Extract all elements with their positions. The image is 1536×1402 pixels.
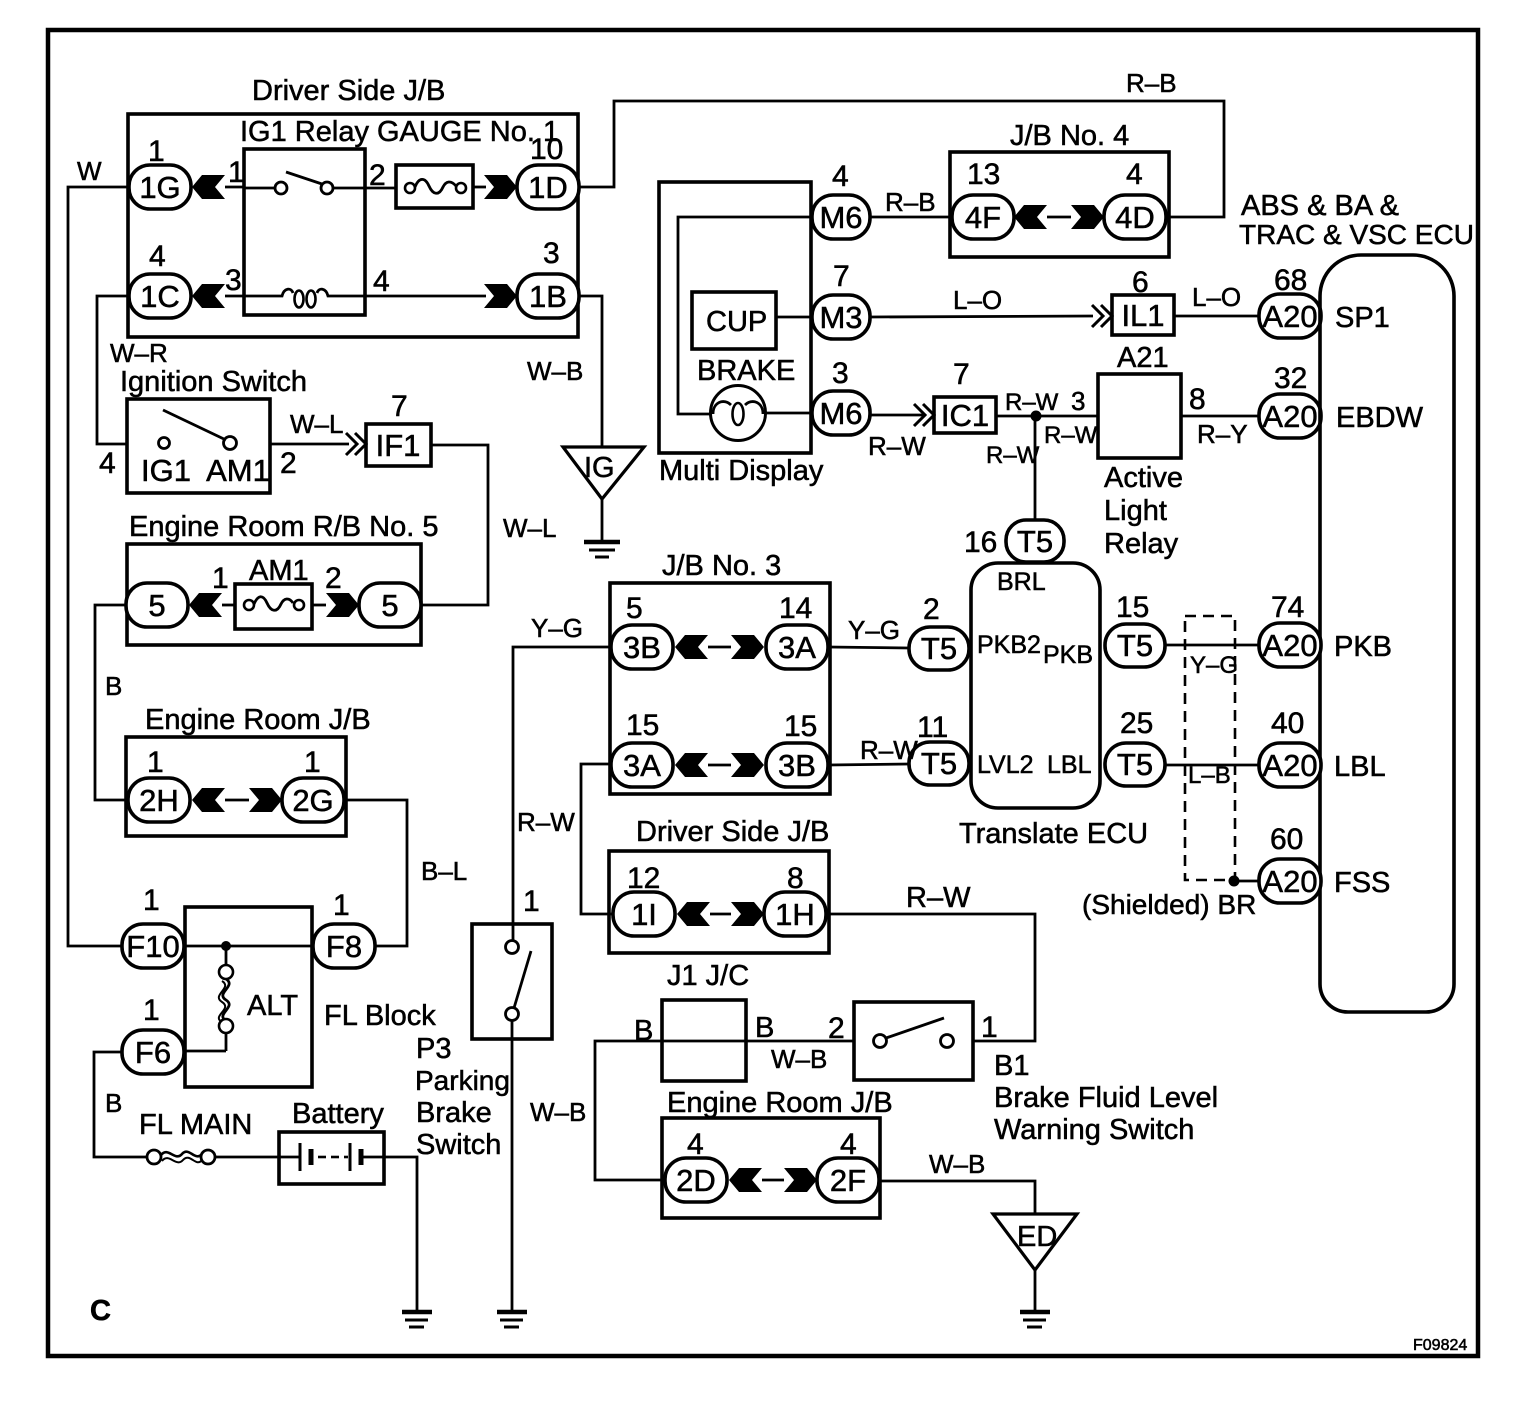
svg-text:74: 74	[1271, 591, 1304, 624]
svg-text:15: 15	[1116, 591, 1149, 624]
svg-text:Engine Room R/B No. 5: Engine Room R/B No. 5	[129, 511, 438, 543]
svg-text:LVL2: LVL2	[977, 751, 1034, 779]
svg-text:4: 4	[687, 1128, 704, 1161]
svg-text:7: 7	[391, 390, 408, 423]
svg-text:A20: A20	[1262, 299, 1317, 334]
node junction on F10-F8 wire	[221, 941, 231, 951]
arrows between 2H and 2G	[192, 788, 225, 812]
wire W : 1G left down to F10	[68, 187, 129, 946]
svg-text:4: 4	[832, 160, 849, 193]
svg-text:AM1: AM1	[206, 453, 270, 488]
svg-text:F09824: F09824	[1413, 1337, 1467, 1354]
svg-text:W–B: W–B	[771, 1044, 827, 1074]
svg-text:M6: M6	[819, 200, 862, 235]
svg-text:4: 4	[1126, 158, 1143, 191]
svg-text:T5: T5	[1017, 524, 1053, 559]
svg-text:3B: 3B	[623, 630, 661, 665]
svg-text:Active: Active	[1104, 462, 1183, 494]
svg-text:3B: 3B	[778, 748, 816, 783]
svg-text:60: 60	[1270, 823, 1303, 856]
svg-text:8: 8	[787, 862, 804, 895]
svg-text:R–W: R–W	[1005, 389, 1059, 416]
wire W-L : IF1 down to R/B No.5	[421, 445, 488, 605]
svg-text:ED: ED	[1017, 1221, 1057, 1253]
svg-text:2F: 2F	[830, 1163, 866, 1198]
svg-text:2H: 2H	[139, 783, 179, 818]
arrows between 3B and 3A	[675, 635, 708, 659]
wire : T5 15 to A20 74	[1165, 644, 1259, 647]
svg-text:FSS: FSS	[1334, 867, 1390, 899]
svg-text:PKB: PKB	[1043, 641, 1093, 669]
svg-text:B1: B1	[994, 1050, 1029, 1082]
svg-text:W–L: W–L	[503, 513, 556, 543]
svg-text:Y–G: Y–G	[1190, 652, 1238, 679]
svg-text:F6: F6	[135, 1035, 171, 1070]
svg-text:B–L: B–L	[421, 856, 467, 886]
svg-text:F8: F8	[326, 929, 362, 964]
svg-text:LBL: LBL	[1047, 751, 1092, 779]
svg-text:1: 1	[143, 884, 160, 917]
arrow into right 5, pin 2	[326, 593, 359, 617]
svg-text:ABS & BA &: ABS & BA &	[1241, 190, 1399, 222]
svg-text:T5: T5	[921, 631, 957, 666]
svg-text:1I: 1I	[631, 897, 657, 932]
svg-text:IF1: IF1	[376, 428, 421, 463]
arrow into 1D	[473, 186, 486, 189]
fusible link ALT	[225, 946, 228, 965]
svg-text:7: 7	[953, 358, 970, 391]
svg-text:1: 1	[212, 562, 229, 595]
svg-text:B: B	[105, 671, 122, 701]
svg-text:12: 12	[627, 862, 660, 895]
svg-text:1G: 1G	[139, 170, 180, 205]
wire : T5 25 to A20 40	[1165, 764, 1259, 767]
svg-text:R–W: R–W	[868, 431, 926, 461]
svg-text:2G: 2G	[292, 783, 333, 818]
svg-text:R–W: R–W	[986, 442, 1040, 469]
svg-text:5: 5	[626, 592, 643, 625]
svg-text:15: 15	[784, 710, 817, 743]
svg-text:32: 32	[1274, 362, 1307, 395]
svg-text:2: 2	[280, 447, 297, 480]
svg-text:IC1: IC1	[941, 398, 989, 433]
svg-text:3A: 3A	[623, 748, 661, 783]
shield dashed box	[1185, 616, 1235, 880]
ground IG triangle	[563, 447, 644, 499]
svg-text:L–O: L–O	[1192, 282, 1241, 312]
chevron into IC1	[914, 404, 934, 426]
svg-text:W–L: W–L	[290, 409, 343, 439]
svg-text:68: 68	[1274, 264, 1307, 297]
svg-text:4F: 4F	[965, 200, 1001, 235]
svg-text:A21: A21	[1117, 342, 1169, 374]
svg-text:IL1: IL1	[1121, 298, 1164, 333]
svg-text:14: 14	[779, 592, 812, 625]
arrows between 3A and 3B (bottom)	[675, 753, 708, 777]
ground ED triangle	[993, 1214, 1077, 1270]
svg-text:M6: M6	[819, 396, 862, 431]
svg-text:R–Y: R–Y	[1197, 419, 1248, 449]
svg-text:R–B: R–B	[1126, 68, 1177, 98]
arrow into 1G pin 1	[192, 175, 225, 199]
relay switch contact	[244, 187, 275, 190]
svg-text:L–O: L–O	[953, 285, 1002, 315]
wire through FL block F10-F8	[184, 945, 313, 948]
svg-text:2: 2	[923, 593, 940, 626]
svg-text:7: 7	[833, 260, 850, 293]
svg-text:Driver Side J/B: Driver Side J/B	[252, 75, 445, 107]
svg-text:1B: 1B	[529, 279, 567, 314]
svg-text:BRL: BRL	[997, 568, 1046, 596]
Multi Display	[659, 182, 811, 453]
svg-text:1: 1	[333, 889, 350, 922]
arrow into 1C pin 3	[192, 284, 225, 308]
svg-text:Parking: Parking	[415, 1065, 510, 1096]
svg-text:Brake Fluid Level: Brake Fluid Level	[994, 1082, 1218, 1114]
svg-text:2D: 2D	[676, 1163, 716, 1198]
svg-text:4: 4	[149, 240, 166, 273]
svg-text:R–W: R–W	[1044, 422, 1098, 449]
svg-text:5: 5	[381, 588, 398, 623]
svg-text:3: 3	[543, 237, 560, 270]
lamp BRAKE	[711, 386, 766, 441]
svg-text:R–W: R–W	[860, 735, 918, 765]
svg-text:W–B: W–B	[929, 1149, 985, 1179]
svg-text:IG1: IG1	[141, 453, 191, 488]
svg-text:ALT: ALT	[247, 990, 298, 1022]
svg-text:J/B No. 3: J/B No. 3	[662, 550, 781, 582]
svg-text:F10: F10	[126, 929, 179, 964]
svg-text:T5: T5	[921, 746, 957, 781]
svg-text:1H: 1H	[775, 897, 815, 932]
svg-text:R–W: R–W	[517, 807, 575, 837]
svg-text:Warning Switch: Warning Switch	[994, 1114, 1194, 1146]
node junction R-W	[1031, 411, 1042, 422]
svg-text:A20: A20	[1262, 399, 1317, 434]
svg-text:PKB: PKB	[1334, 631, 1392, 663]
svg-text:1: 1	[143, 994, 160, 1027]
svg-text:1: 1	[304, 746, 321, 779]
svg-text:A20: A20	[1262, 628, 1317, 663]
svg-text:LBL: LBL	[1334, 751, 1386, 783]
arrows between 2D and 2F	[729, 1168, 762, 1192]
svg-text:1D: 1D	[528, 170, 568, 205]
Translate ECU box	[971, 563, 1100, 808]
svg-text:4: 4	[373, 265, 390, 298]
svg-text:B: B	[105, 1088, 122, 1118]
gauge CUP	[692, 292, 776, 349]
svg-text:P3: P3	[416, 1033, 451, 1065]
svg-text:CUP: CUP	[706, 306, 767, 338]
svg-text:IG: IG	[584, 452, 615, 484]
ground symbol ED	[1020, 1310, 1050, 1315]
svg-text:4D: 4D	[1115, 200, 1155, 235]
svg-text:R–B: R–B	[885, 187, 936, 217]
arrows between 1I and 1H	[677, 902, 710, 926]
svg-text:2: 2	[828, 1012, 845, 1045]
svg-text:1: 1	[228, 156, 245, 189]
fuse GAUGE No.1	[396, 165, 473, 208]
svg-text:EBDW: EBDW	[1336, 402, 1424, 434]
chevron into IL1	[1092, 305, 1112, 327]
connector 5 (right)	[359, 583, 421, 627]
svg-text:R–W: R–W	[906, 882, 971, 914]
svg-text:SP1: SP1	[1335, 302, 1390, 334]
wire B : J1 J/C to 2D	[595, 1041, 665, 1180]
svg-text:16: 16	[964, 526, 997, 559]
svg-text:10: 10	[530, 133, 563, 166]
connector 5 (left)	[126, 583, 188, 627]
svg-text:BRAKE: BRAKE	[697, 355, 795, 387]
svg-text:J1 J/C: J1 J/C	[667, 960, 749, 992]
node shield drain BR to FSS	[1229, 876, 1240, 887]
wire 1D to R-B (top run to 4D)	[579, 101, 1224, 217]
svg-text:4: 4	[840, 1128, 857, 1161]
svg-text:M3: M3	[819, 300, 862, 335]
svg-text:11: 11	[917, 711, 948, 744]
svg-text:Translate ECU: Translate ECU	[959, 818, 1148, 850]
svg-text:Driver Side J/B: Driver Side J/B	[636, 816, 829, 848]
svg-text:W–B: W–B	[530, 1097, 586, 1127]
wire junction down to T5 16	[1034, 416, 1037, 521]
svg-text:Light: Light	[1104, 495, 1167, 527]
svg-text:1: 1	[148, 135, 165, 168]
svg-text:Ignition Switch: Ignition Switch	[120, 366, 307, 398]
arrows between 4F and 4D	[1014, 205, 1047, 229]
svg-text:IG1 Relay GAUGE No. 1: IG1 Relay GAUGE No. 1	[240, 116, 559, 148]
svg-text:5: 5	[148, 588, 165, 623]
ground symbol parking	[497, 1310, 527, 1315]
svg-text:FL MAIN: FL MAIN	[139, 1109, 252, 1141]
svg-text:1: 1	[981, 1011, 998, 1044]
switch B1 Brake Fluid Level Warning Switch	[854, 1002, 973, 1080]
wire : 3A down to 1I	[581, 764, 613, 914]
svg-text:(Shielded) BR: (Shielded) BR	[1082, 889, 1256, 920]
svg-text:40: 40	[1271, 707, 1304, 740]
svg-text:4: 4	[99, 447, 116, 480]
arrow into left 5, pin 1	[189, 593, 222, 617]
svg-text:W–B: W–B	[527, 356, 583, 386]
svg-text:PKB2: PKB2	[977, 631, 1041, 659]
svg-text:C: C	[90, 1295, 111, 1327]
svg-text:Relay: Relay	[1104, 528, 1179, 560]
svg-text:B: B	[755, 1012, 774, 1044]
svg-text:3A: 3A	[778, 630, 816, 665]
svg-text:Battery: Battery	[292, 1098, 384, 1130]
svg-text:T5: T5	[1117, 747, 1153, 782]
svg-text:2: 2	[325, 562, 342, 595]
svg-text:TRAC & VSC ECU: TRAC & VSC ECU	[1239, 219, 1474, 250]
svg-text:Y–G: Y–G	[848, 615, 900, 645]
svg-text:A20: A20	[1262, 748, 1317, 783]
arrow into 1B	[484, 284, 517, 308]
svg-text:W: W	[77, 156, 102, 186]
svg-text:T5: T5	[1117, 628, 1153, 663]
svg-text:Engine Room J/B: Engine Room J/B	[667, 1087, 893, 1119]
svg-text:J/B No. 4: J/B No. 4	[1010, 120, 1129, 152]
svg-text:3: 3	[1071, 386, 1085, 416]
ground symbol IG	[584, 540, 620, 545]
relay coil	[244, 289, 365, 296]
svg-text:Engine Room J/B: Engine Room J/B	[145, 704, 371, 736]
svg-text:W–R: W–R	[110, 338, 168, 368]
svg-text:1C: 1C	[140, 279, 180, 314]
wire battery to ground	[384, 1157, 417, 1310]
svg-text:Switch: Switch	[416, 1129, 501, 1161]
svg-text:Y–G: Y–G	[531, 613, 583, 643]
svg-text:15: 15	[626, 709, 659, 742]
svg-text:3: 3	[225, 264, 242, 297]
relay IG1 box	[244, 149, 365, 315]
svg-text:3: 3	[832, 357, 849, 390]
wire inner loop to M6 pins	[678, 217, 811, 414]
svg-text:8: 8	[1189, 383, 1206, 416]
chevron into IF1	[346, 433, 366, 455]
ECU box	[1320, 255, 1454, 1012]
svg-text:A20: A20	[1262, 864, 1317, 899]
svg-text:25: 25	[1120, 707, 1153, 740]
svg-text:Multi Display: Multi Display	[659, 455, 824, 487]
svg-text:1: 1	[147, 746, 164, 779]
ground symbol battery	[402, 1310, 432, 1315]
svg-text:13: 13	[967, 158, 1000, 191]
svg-text:1: 1	[523, 885, 540, 918]
svg-text:Brake: Brake	[416, 1097, 492, 1129]
svg-text:FL Block: FL Block	[324, 1000, 436, 1032]
